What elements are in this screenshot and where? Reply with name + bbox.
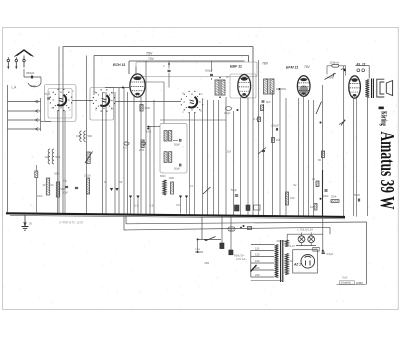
svg-text:AZ 1: AZ 1 <box>293 262 301 266</box>
svg-text:150: 150 <box>229 227 234 231</box>
svg-text:0,5: 0,5 <box>150 204 154 208</box>
svg-text:5000: 5000 <box>354 193 360 197</box>
svg-text:78V: 78V <box>262 62 269 66</box>
svg-text:500: 500 <box>61 187 66 191</box>
svg-text:250pF: 250pF <box>271 124 279 128</box>
svg-text:125: 125 <box>255 253 260 257</box>
svg-text:Amatus 39 W: Amatus 39 W <box>376 132 398 210</box>
svg-text:500: 500 <box>31 84 36 88</box>
svg-text:110: 110 <box>255 247 260 251</box>
svg-text:50pF: 50pF <box>174 143 180 147</box>
svg-text:U.a: U.a <box>196 247 201 251</box>
svg-text:150: 150 <box>255 259 260 263</box>
svg-text:100: 100 <box>45 155 50 159</box>
svg-text:0,5: 0,5 <box>176 203 180 207</box>
svg-text:Schaltbild: Schaltbild <box>341 282 352 285</box>
svg-text:170: 170 <box>314 248 319 251</box>
svg-text:1000: 1000 <box>37 195 43 198</box>
svg-text:EBF 11: EBF 11 <box>230 65 242 69</box>
svg-text:10μF: 10μF <box>62 191 68 195</box>
svg-text:3000: 3000 <box>54 173 60 176</box>
svg-text:7e/2: 7e/2 <box>342 275 348 279</box>
svg-text:250pF: 250pF <box>26 71 35 75</box>
svg-text:70V: 70V <box>148 57 155 61</box>
svg-text:25μ: 25μ <box>63 180 68 183</box>
svg-text:Körting: Körting <box>380 111 390 126</box>
svg-text:500: 500 <box>88 134 93 138</box>
svg-text:15000: 15000 <box>84 175 91 178</box>
svg-text:≈50: ≈50 <box>204 261 209 265</box>
svg-text:75V: 75V <box>146 52 153 56</box>
svg-text:0,5: 0,5 <box>255 207 259 210</box>
svg-text:10,4: 10,4 <box>146 130 152 134</box>
svg-text:5000: 5000 <box>323 194 329 198</box>
svg-text:0,1: 0,1 <box>123 146 127 150</box>
svg-text:25/4: 25/4 <box>139 148 145 152</box>
svg-text:L.7S/LN 0,1A: L.7S/LN 0,1A <box>298 228 314 232</box>
svg-text:150: 150 <box>290 196 295 200</box>
svg-text:150mA: 150mA <box>330 61 340 65</box>
svg-text:2/4MB: 2/4MB <box>326 76 334 80</box>
svg-text:500pF: 500pF <box>205 69 213 73</box>
svg-text:2-408-GTL-¼½r: 2-408-GTL-¼½r <box>58 221 84 225</box>
svg-text:0,1: 0,1 <box>134 204 138 208</box>
svg-text:50: 50 <box>318 158 321 162</box>
svg-text:4,2V 1A~: 4,2V 1A~ <box>236 257 247 261</box>
svg-text:75pF: 75pF <box>44 92 51 96</box>
svg-text:1M: 1M <box>227 150 232 154</box>
svg-text:50pF: 50pF <box>174 167 180 171</box>
svg-text:EFM 11: EFM 11 <box>286 66 298 70</box>
svg-text:4V: 4V <box>293 183 297 187</box>
svg-text:240: 240 <box>255 273 260 277</box>
svg-text:50μF: 50μF <box>231 188 237 192</box>
svg-text:0,5μF: 0,5μF <box>327 252 334 256</box>
svg-text:5000: 5000 <box>160 175 166 178</box>
svg-text:0,1: 0,1 <box>254 117 258 121</box>
svg-text:3000: 3000 <box>145 107 151 110</box>
svg-text:ECH 11: ECH 11 <box>113 63 125 67</box>
svg-text:4,2V: 4,2V <box>290 245 295 248</box>
svg-text:EL 11: EL 11 <box>357 62 366 66</box>
svg-text:5pF: 5pF <box>266 100 271 104</box>
svg-text:40: 40 <box>312 177 315 181</box>
svg-text:500: 500 <box>56 155 61 159</box>
svg-text:25/4: 25/4 <box>331 195 337 199</box>
svg-text:1000: 1000 <box>169 177 175 180</box>
svg-text:100: 100 <box>76 134 81 138</box>
